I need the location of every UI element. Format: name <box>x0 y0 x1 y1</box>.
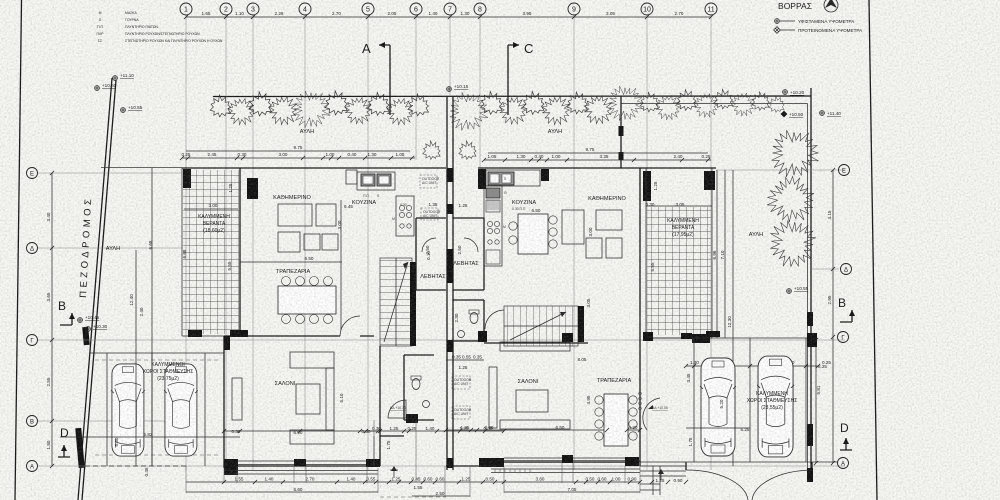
extension lines bottom right unit <box>504 463 640 493</box>
wall chunk right boundary <box>807 312 813 326</box>
right plot boundary line <box>810 88 812 480</box>
top hedge bushes <box>210 86 784 130</box>
veranda left label <box>198 214 230 234</box>
sofa group right unit <box>562 210 622 258</box>
door arc wc left <box>388 400 406 418</box>
pier salon bottom-mid <box>294 459 306 466</box>
row bubble E right <box>839 165 850 176</box>
right hedge bushes <box>760 130 823 269</box>
pier veranda top-left right unit <box>643 171 651 201</box>
row D right segment <box>812 268 839 270</box>
pier entrance right big <box>479 458 504 467</box>
dining table left unit <box>278 277 336 324</box>
veranda right hatch <box>647 207 711 335</box>
level flag +10.05 porch <box>648 405 668 410</box>
interior wall kathimerino/salon left <box>224 335 374 337</box>
row bubble B left <box>27 416 38 427</box>
toilet right wc <box>469 310 479 324</box>
pier bottom mid right unit <box>562 455 573 463</box>
sofa group kathimerino left <box>278 204 338 252</box>
bottom dim line left unit <box>186 477 504 483</box>
stair right unit <box>504 306 578 346</box>
section marker B left <box>58 299 75 325</box>
level marker +10.50 <box>781 111 804 118</box>
pier salon bottom-left <box>224 459 238 475</box>
wc black jamb <box>406 414 418 423</box>
section marker D left <box>58 426 70 457</box>
salon walls left unit <box>224 336 378 468</box>
car 2 right parking <box>757 356 794 457</box>
wall under stair right <box>484 342 588 344</box>
veranda right outline <box>646 168 712 338</box>
pier top col8 <box>478 169 486 189</box>
level marker +11.10 <box>113 73 135 80</box>
level marker +10.55 right mid <box>787 286 809 293</box>
north arrow <box>824 0 838 12</box>
entrance court left walls <box>380 346 404 466</box>
stair left side wall black <box>410 262 416 346</box>
level marker +10.45 left mid <box>78 315 100 322</box>
row bubble G left <box>27 335 38 346</box>
section marker C <box>508 41 533 115</box>
left vertical dim chain <box>46 173 52 466</box>
right vertical dim chain <box>816 170 833 463</box>
level marker +11.40 <box>820 111 842 116</box>
pier top mid right unit <box>541 169 549 181</box>
left slanted plot boundary (pezodromos) <box>78 78 116 500</box>
column grid bubbles 1-11 <box>180 3 717 470</box>
dashed bottom center <box>380 496 446 498</box>
veranda left hatch <box>183 170 239 334</box>
boiler room right walls <box>453 218 484 290</box>
car 1 left parking <box>111 364 145 456</box>
pier veranda bottom-left <box>188 330 202 337</box>
pier veranda bottom-left right unit <box>643 332 653 341</box>
veranda right label <box>667 218 699 238</box>
pier veranda bottom-right right unit <box>692 334 710 343</box>
entrance path bushes <box>423 141 440 160</box>
parking label left <box>143 362 194 382</box>
wall chunk on boundary <box>75 428 84 468</box>
party wall double <box>447 97 453 470</box>
courtyard fence between yards <box>620 96 622 168</box>
pier veranda bottom-right <box>230 330 248 337</box>
window band salon bottom 1 <box>237 461 294 465</box>
level marker +10.55 <box>121 105 143 112</box>
porch step right corner <box>640 466 686 495</box>
porch lines under left unit <box>224 471 378 475</box>
top plot boundary line <box>213 95 811 98</box>
ac unit box 1 left <box>420 175 440 188</box>
section marker D right <box>840 421 852 450</box>
window band right unit <box>504 458 625 463</box>
ground mark right porch <box>658 469 664 480</box>
extension lines bottom center <box>374 420 470 497</box>
section marker B right <box>838 296 855 322</box>
dim chain 0.35 0.55 0.35 <box>446 355 484 371</box>
row bubble D left <box>27 243 38 254</box>
dim line mid parking <box>686 427 750 429</box>
parking dim line <box>686 360 831 366</box>
bottom dim line right unit <box>504 477 640 493</box>
door arc wc right <box>485 310 504 329</box>
right unit top dim line <box>484 147 711 160</box>
kitchen side counter + hob left unit <box>392 196 414 236</box>
pier bottom right unit <box>625 457 639 466</box>
ac box right 2 <box>452 406 472 419</box>
legend proposed levels <box>774 27 863 34</box>
row bubble G right <box>838 332 849 343</box>
row bubble E left <box>27 168 38 179</box>
level marker +10.15 top middle <box>447 84 469 91</box>
wall chunk right boundary <box>807 424 813 446</box>
salon furniture left <box>232 352 334 444</box>
pier col2 <box>247 178 258 199</box>
parking dashed roof left <box>95 360 220 455</box>
inner yard fence line <box>621 104 808 471</box>
level marker +10.30 left mid <box>86 324 108 331</box>
parking label right <box>747 391 798 411</box>
car 2 left parking <box>164 364 198 456</box>
salon furniture right <box>489 342 570 429</box>
toilet left wc <box>411 376 421 390</box>
dimension tick slashes <box>50 15 835 484</box>
stair right walls <box>578 306 584 342</box>
sink left wc <box>423 401 430 408</box>
bottom left corner lines <box>85 465 186 467</box>
boiler door arc left <box>422 238 436 252</box>
top wall left unit <box>182 167 446 169</box>
top wall right unit <box>478 167 716 169</box>
ac box right 1 <box>452 376 472 389</box>
gate arc left <box>686 470 748 500</box>
boiler door arc right <box>464 238 478 252</box>
porch lines right unit <box>491 469 640 473</box>
row bubble D right <box>841 264 852 275</box>
left sheet border line <box>15 0 22 500</box>
level marker +10.20 <box>783 90 805 95</box>
pier top-left <box>183 169 191 188</box>
door arc dining right <box>643 398 660 430</box>
dining table right unit <box>595 394 637 446</box>
wall chunk right boundary <box>807 468 813 482</box>
extension lines bottom left unit <box>186 466 378 493</box>
legend existing levels <box>775 19 856 24</box>
veranda left outline <box>182 168 240 336</box>
section marker A <box>362 41 390 115</box>
pier salon bottom-right <box>367 459 379 467</box>
kitchen counter top left unit <box>346 170 395 198</box>
ac unit box 2 left <box>421 208 441 220</box>
kitchen wall column right unit <box>484 177 507 266</box>
car 1 right parking <box>700 358 736 456</box>
dim line salon bottom <box>224 430 378 432</box>
row A line right extension <box>640 461 838 463</box>
right sheet border line <box>869 0 877 500</box>
parking roof edge right <box>653 338 807 462</box>
wc left unit walls <box>404 355 434 420</box>
ground mark left porch <box>390 466 398 478</box>
kitchen counter top right unit <box>486 170 540 186</box>
row bubble A right <box>838 458 849 469</box>
kitchen table right unit <box>509 214 557 254</box>
small circles decor <box>639 392 642 410</box>
boiler room left walls <box>416 218 446 290</box>
dim 6.50 <box>240 261 342 263</box>
pier salon top-left <box>224 336 230 350</box>
right unit outer dims vertical <box>712 170 733 466</box>
bottom dim line 2 <box>186 485 470 496</box>
gate posts <box>686 462 812 470</box>
porch hatch right <box>495 469 530 473</box>
row bubble A left <box>27 461 38 472</box>
left unit top dim line <box>182 145 415 158</box>
bottom dims right porch <box>656 478 683 483</box>
pier veranda top-right right unit <box>704 171 715 190</box>
entrance court dims <box>366 426 504 431</box>
legend top-left <box>97 11 223 43</box>
parking canopy outline left <box>90 353 224 466</box>
window band salon bottom 2 <box>306 461 367 465</box>
sink right wc <box>458 331 465 338</box>
wall right unit east <box>639 338 641 466</box>
row grid lines <box>38 168 845 467</box>
parking top piers <box>681 333 692 339</box>
wall chunk on boundary <box>82 327 90 345</box>
dims salon right <box>446 425 640 430</box>
pier entrance left <box>366 459 380 467</box>
interior wall kath/veranda right <box>639 168 641 338</box>
level flag +10.70 <box>390 406 406 410</box>
wc right unit walls <box>453 300 484 341</box>
stair left unit <box>380 258 412 346</box>
gate arc right <box>752 470 812 500</box>
bottom wall right unit <box>446 461 640 466</box>
party wall black chunks <box>447 168 454 182</box>
left unit outer dim line vertical <box>136 168 152 466</box>
level marker +10.60 <box>95 83 117 90</box>
